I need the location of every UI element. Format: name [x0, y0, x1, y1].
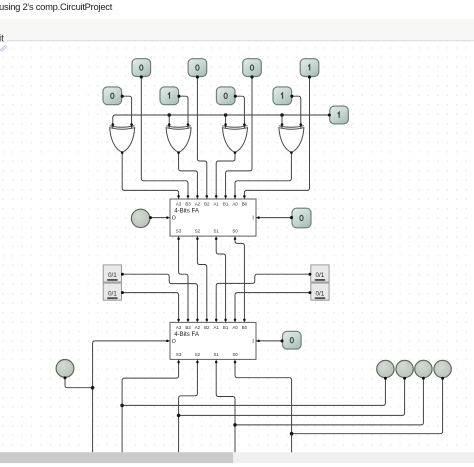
- wire FA U6 S2 down-left to canvas edge: [179, 362, 198, 453]
- op-amp style block: 4-Bits FA U5: [166, 195, 260, 240]
- wire XOR U3 output to FA U5 pin A1: [216, 153, 235, 197]
- svg-text:A2: A2: [195, 325, 201, 330]
- pin dot switch SW3: [308, 273, 311, 276]
- svg-text:S3: S3: [176, 229, 182, 234]
- wire button B8 to XOR U4 right input: [292, 96, 301, 124]
- junction S0/P6: [290, 432, 294, 436]
- wire XOR U2 output to FA U5 pin A2: [179, 153, 198, 197]
- pin dot button B5: [121, 95, 124, 98]
- wire control branch to XOR U4 left input: [281, 115, 283, 125]
- pin dot button B6: [177, 95, 180, 98]
- probe P6 (sum S0): [434, 360, 451, 377]
- button B10 value 0 (carry-in U5): [292, 208, 311, 228]
- wire control branch to XOR U2 left input: [168, 115, 170, 125]
- button B7 value 0 (input B1): [216, 87, 235, 105]
- svg-text:B3: B3: [185, 325, 191, 330]
- svg-text:A1: A1: [214, 202, 220, 207]
- svg-text:A1: A1: [214, 325, 220, 330]
- xor gate U3: [223, 123, 248, 154]
- button B1 value 0 (input A3): [132, 59, 151, 77]
- svg-text:0/1: 0/1: [315, 272, 324, 279]
- wire FA U5 S1 to FA U6 pin B1: [216, 238, 225, 321]
- pin dot probe P4: [403, 377, 406, 380]
- wire switch SW2 to FA U6 pin A3: [123, 293, 179, 321]
- junction S3/P3: [120, 404, 124, 408]
- toolbar band: [0, 19, 474, 41]
- wire FA U5 S3 to FA U6 pin B3: [179, 238, 188, 321]
- wire button B3 to FA U5 pin B1: [226, 77, 252, 196]
- wire button B6 to XOR U2 right input: [179, 96, 188, 124]
- wire switch SW4 to FA U6 pin A0: [235, 293, 310, 321]
- probe P1 (carry out of U5): [131, 209, 149, 227]
- wire XOR U4 output to FA U5 pin A0: [235, 153, 291, 197]
- wire switch SW3 to FA U6 pin A1: [216, 274, 310, 321]
- svg-text:B0: B0: [242, 325, 248, 330]
- switch SW1 0/1: [103, 265, 121, 282]
- button B6 value 1 (input B2): [160, 87, 179, 105]
- svg-text:B2: B2: [204, 325, 210, 330]
- svg-text:A3: A3: [176, 325, 182, 330]
- svg-text:A3: A3: [176, 202, 182, 207]
- svg-text:S0: S0: [232, 352, 238, 357]
- pin dot probe P5: [422, 377, 425, 380]
- probe P2 (carry out of U6): [56, 360, 74, 378]
- svg-text:A0: A0: [232, 202, 238, 207]
- svg-text:O: O: [172, 216, 176, 222]
- pin dot probe P6: [441, 377, 444, 380]
- wire probe P2 to net O2: [65, 378, 93, 388]
- svg-text:B1: B1: [223, 325, 229, 330]
- svg-text:I: I: [252, 339, 253, 345]
- probe P3 (sum S3): [377, 360, 394, 377]
- pin dot button B8: [290, 95, 293, 98]
- wire FA U6 S0 down-right to canvas edge: [235, 362, 292, 453]
- svg-text:4-Bits FA: 4-Bits FA: [174, 208, 200, 215]
- button B5 value 0 (input B3): [103, 87, 122, 105]
- pin dot button B4: [308, 75, 311, 78]
- wire FA U5 S0 to FA U6 pin B0: [235, 238, 244, 321]
- probe P4 (sum S2): [396, 360, 413, 377]
- wire S0 net to probe P6: [292, 378, 443, 433]
- wire FA U5 S2 to FA U6 pin B2: [197, 238, 206, 321]
- svg-text:S1: S1: [214, 229, 220, 234]
- pin dot button B9: [328, 113, 331, 116]
- pin dot switch SW2: [121, 291, 124, 294]
- svg-text:S1: S1: [214, 352, 220, 357]
- wire button B5 to XOR U1 right input: [122, 96, 132, 124]
- svg-text:A2: A2: [195, 202, 201, 207]
- switch SW2 0/1: [103, 283, 121, 300]
- wire button B7 to XOR U3 right input: [235, 96, 244, 124]
- junction control/U2: [167, 113, 171, 117]
- wire S2 net to probe P4: [179, 378, 405, 415]
- pin dot probe P2: [64, 376, 67, 379]
- wire control net from button B9 to XOR U1 left input: [113, 115, 329, 125]
- horizontal scrollbar: [0, 452, 474, 463]
- switch SW4 0/1: [311, 283, 329, 300]
- button B11 value 0 (carry-in U6): [283, 331, 302, 349]
- clipped icon fragment at left edge: [0, 45, 7, 51]
- svg-text:B1: B1: [223, 202, 229, 207]
- wire XOR U1 output to FA U5 pin A3: [122, 153, 178, 197]
- wire S1 net to probe P5: [235, 378, 423, 425]
- junction S2/P4: [177, 414, 181, 418]
- svg-text:4-Bits FA: 4-Bits FA: [174, 331, 200, 338]
- junction S1/P5: [233, 423, 237, 427]
- junction control/U4: [280, 113, 284, 117]
- switch SW3 0/1: [311, 265, 329, 282]
- svg-text:0/1: 0/1: [315, 290, 324, 297]
- junction control/U3: [224, 113, 228, 117]
- svg-text:S0: S0: [232, 229, 238, 234]
- svg-text:A0: A0: [232, 325, 238, 330]
- wire FA U6 left pin O down to canvas edge: [93, 341, 167, 453]
- pin dot switch SW4: [308, 291, 311, 294]
- svg-text:S3: S3: [176, 352, 182, 357]
- xor gate U4: [279, 123, 304, 154]
- wire button B1 to FA U5 pin B3: [141, 77, 188, 196]
- button B4 value 1 (input A0): [300, 59, 319, 77]
- pin dot button B11: [280, 339, 283, 342]
- svg-text:S2: S2: [195, 229, 201, 234]
- pin dot probe P1: [149, 216, 152, 219]
- button B3 value 0 (input A1): [243, 59, 262, 77]
- pin dot button B2: [196, 75, 199, 78]
- xor gate U1: [110, 123, 135, 154]
- pin dot switch SW1: [121, 273, 124, 276]
- svg-text:0/1: 0/1: [108, 272, 117, 279]
- svg-text:I: I: [252, 216, 253, 222]
- 4-Bits FA U6: [166, 318, 260, 363]
- wire control branch to XOR U3 left input: [225, 115, 227, 125]
- pin dot probe P3: [384, 377, 387, 380]
- button B2 value 0 (input A2): [188, 59, 207, 77]
- svg-text:0/1: 0/1: [108, 290, 117, 297]
- svg-text:B3: B3: [185, 202, 191, 207]
- wire button B2 to FA U5 pin B2: [197, 77, 206, 196]
- svg-text:O: O: [172, 339, 176, 345]
- pin dot button B7: [234, 95, 237, 98]
- svg-text:B2: B2: [204, 202, 210, 207]
- wire FA U5 right pin I to button B10: [256, 217, 291, 219]
- probe P5 (sum S1): [415, 360, 432, 377]
- wire switch SW1 to FA U6 pin A2: [123, 274, 198, 321]
- button B9 value 1 (subtract control): [330, 106, 349, 124]
- svg-text:B0: B0: [242, 202, 248, 207]
- xor gate U2: [166, 123, 191, 154]
- svg-text:using 2's comp.CircuitProject: using 2's comp.CircuitProject: [0, 1, 113, 12]
- wire button B4 to FA U5 pin B0: [244, 77, 309, 196]
- wire FA U6 S3 down-left to canvas edge: [122, 362, 179, 453]
- pin dot button B10: [290, 216, 293, 219]
- wire FA U6 S1 down-right to canvas edge: [216, 362, 235, 453]
- junction P2/O2 net: [91, 386, 95, 390]
- button B8 value 1 (input B0): [273, 87, 292, 105]
- wire probe P1 to FA U5 left pin O: [150, 217, 167, 219]
- svg-text:it: it: [0, 34, 4, 45]
- wire FA U6 right pin I to button B11: [256, 340, 282, 342]
- wire S3 net to probe P3: [122, 378, 385, 405]
- pin dot button B3: [250, 75, 253, 78]
- pin dot button B1: [140, 75, 143, 78]
- svg-text:S2: S2: [195, 352, 201, 357]
